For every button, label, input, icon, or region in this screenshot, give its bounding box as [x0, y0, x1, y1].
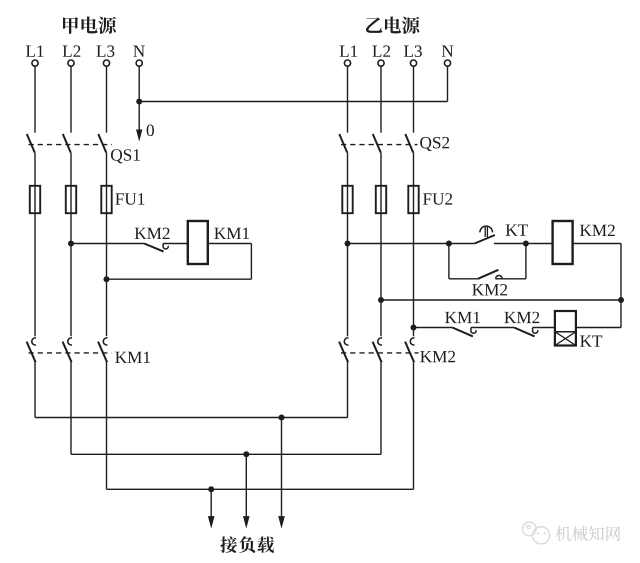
- wire: L3 source A fuse to KM1 contact: [106, 213, 108, 336]
- wire: load bus 3 horizontal: [107, 488, 414, 490]
- wire: load bus 2 right vertical (from KM2 pole 2): [380, 362, 382, 454]
- contact KM1 main pole 1 blade: [27, 342, 36, 363]
- wire: L3 source B terminal to QS: [413, 66, 415, 132]
- switch QS1 pole 3 blade: [98, 134, 106, 153]
- node: junction of KT contact and KM2 self-hold branch (left): [446, 241, 452, 247]
- wire: KM1 coil to right corner: [208, 243, 252, 245]
- arrow: load output from bus 2: [243, 454, 250, 528]
- wire: load bus 1 left vertical (from KM1 pole 1): [34, 362, 36, 417]
- wire: L1 source B fuse to KM2 contact: [347, 213, 349, 336]
- wire: load bus 2 left vertical (from KM1 pole 2): [70, 362, 72, 454]
- wire: L1 source B QS to fuse: [347, 153, 349, 186]
- label: QS1: [111, 149, 140, 163]
- contact KM2 NO fixed-contact dome: [496, 275, 503, 278]
- wire: L2 source B terminal to QS: [380, 66, 382, 132]
- node: tap on L1 source B for KM2 coil circuit: [345, 241, 351, 247]
- node: load tap on bus 3: [208, 486, 214, 492]
- contact KM2 normally-closed blade: [514, 328, 535, 337]
- terminal circle N source B: [444, 60, 450, 66]
- wire: N source B terminal down to neutral bus: [447, 66, 449, 101]
- label: terminal L2: [63, 45, 81, 56]
- coil KM2 (contactor coil): [553, 221, 573, 264]
- label: QS2: [420, 137, 449, 151]
- wire: self-hold branch to KM2 NO contact: [449, 278, 478, 280]
- wire: self-hold branch left vertical: [448, 244, 450, 279]
- wire: L3 source B tap to KM1 NC contact: [414, 327, 453, 329]
- label: KM1 (NC contact in KT circuit): [445, 312, 480, 323]
- terminal circle L2 source B: [378, 60, 384, 66]
- switch QS1 pole 1 blade: [27, 134, 35, 153]
- contact KM2 normally-closed (interlock) blade: [144, 244, 163, 252]
- wire: KM2 NC contact to KM1 coil: [163, 243, 188, 245]
- contact KM1 main pole 2 blade: [63, 342, 72, 363]
- label: terminal N: [133, 46, 145, 57]
- switch QS2 pole 2 blade: [373, 134, 381, 153]
- fuse FU2 pole 3: [408, 186, 418, 213]
- coil KT (time relay coil, box with X): [555, 311, 576, 346]
- terminal circle L1 source A: [32, 60, 38, 66]
- label: KM2 (main contacts): [420, 351, 455, 362]
- label: KM2 (NC contact in KT circuit): [504, 312, 539, 323]
- contact KM1 normally-closed blade: [452, 328, 473, 337]
- node: junction of KT contact and KM2 self-hold branch (right): [523, 241, 529, 247]
- contact KM1 NC fixed-contact hook: [471, 328, 476, 333]
- coil KM1 (contactor coil): [188, 221, 208, 264]
- wire: L2 source A fuse to KM1 contact: [70, 213, 72, 336]
- watermark logo (two circles): [523, 522, 550, 544]
- switch QS1 pole 2 blade: [63, 134, 71, 153]
- wire: load bus 3 right vertical (from KM2 pole 3): [413, 362, 415, 489]
- wire: KT contact fixed side to junction: [494, 243, 526, 245]
- fuse FU2 pole 1: [342, 186, 352, 213]
- label: KM2 (self-holding contact): [472, 284, 507, 295]
- wire: L3 source A terminal to QS: [106, 66, 108, 132]
- fuse FU2 pole 2: [376, 186, 386, 213]
- fuse FU1 pole 1: [30, 186, 40, 213]
- wire: neutral bus linking N of source A and source B: [139, 101, 447, 103]
- label: KM2 (interlock contact): [135, 228, 170, 239]
- terminal circle N source A: [136, 60, 142, 66]
- wire: L1 source B tap to KT contact branch: [348, 243, 449, 245]
- watermark text 机械知网: [556, 526, 620, 541]
- wire: load bus 2 horizontal: [71, 453, 381, 455]
- wire: L2 source B fuse to KM2 contact: [380, 213, 382, 336]
- wire: L1 source A fuse to KM1 contact: [34, 213, 36, 336]
- wire: load bus 3 left vertical (from KM1 pole 3): [106, 362, 108, 489]
- node: KM1 coil return tap on L3 source A: [104, 276, 110, 282]
- node: N junction source A: [136, 99, 142, 105]
- contact KT time-delay symbol (semicircle with stem): [480, 226, 493, 237]
- contact KM1 main pole 3 blade: [98, 342, 107, 363]
- wire: load bus 1 horizontal: [35, 417, 348, 419]
- wire: self-hold branch right vertical: [525, 244, 527, 279]
- wire: load bus 1 right vertical (from KM2 pole 1): [347, 362, 349, 417]
- node: junction control return at right edge: [618, 297, 624, 303]
- wire: L2 source A QS to fuse: [70, 153, 72, 186]
- wire: L3 source A QS to fuse: [106, 153, 108, 186]
- label: KM2 (coil): [580, 225, 615, 236]
- node: tap on L3 source B for KT coil circuit: [411, 325, 417, 331]
- label: terminal L3: [404, 45, 422, 57]
- wire: L2 source B QS to fuse: [380, 153, 382, 186]
- node: tap on L2 source B (control return): [378, 297, 384, 303]
- contact KM2 main pole 2 (fixed-contact arc): [378, 338, 382, 345]
- node: tap on L2 source A for KM1 coil circuit: [68, 241, 74, 247]
- contact KM1 main pole 1 (fixed-contact arc): [32, 338, 36, 345]
- label: title 甲电源 (power source A): [63, 16, 116, 33]
- fuse FU1 pole 2: [66, 186, 76, 213]
- terminal circle L3 source A: [103, 60, 109, 66]
- label: KT (coil): [580, 336, 602, 347]
- contact KT time-delayed blade: [475, 235, 495, 244]
- label: terminal L3: [96, 45, 114, 57]
- contact KM1 main pole 2 (fixed-contact arc): [68, 338, 72, 345]
- label: terminal L2: [372, 45, 390, 56]
- contact KM2 main pole 1 blade: [339, 342, 348, 363]
- wire: control return bus to right edge: [381, 299, 621, 301]
- label: terminal N: [442, 46, 454, 57]
- wire: KM2 NC to KT coil: [532, 327, 555, 329]
- label: terminal L1: [340, 45, 358, 56]
- wire: L3 source B fuse to KM2 contact: [413, 213, 415, 336]
- label: FU1: [115, 193, 144, 205]
- node: load tap on bus 2: [243, 451, 249, 457]
- contact KM2 NC fixed-contact hook: [163, 244, 168, 249]
- terminal circle L3 source B: [410, 60, 416, 66]
- contact KM2 NC fixed-contact hook: [533, 328, 538, 333]
- arrow: load output from bus 3: [208, 489, 215, 528]
- wire: L3 source B QS to fuse: [413, 153, 415, 186]
- contact KM1 linkage dashed line: [29, 352, 112, 354]
- wire: L2 tap to KM2 NC contact: [71, 243, 144, 245]
- contact KM2 normally-open (self-holding) blade: [478, 270, 499, 279]
- wire: KM1 coil return to L3 source A: [107, 278, 252, 280]
- wire: L1 source A terminal to QS: [34, 66, 36, 132]
- contact KM2 main pole 1 (fixed-contact arc): [344, 338, 348, 345]
- wire: junction to KM2 coil: [526, 243, 553, 245]
- contact KM2 main pole 3 blade: [405, 342, 414, 363]
- switch QS2 pole 1 blade: [339, 134, 347, 153]
- label: 0 (neutral line): [147, 125, 154, 137]
- wire: KM1 NC to KM2 NC contact: [471, 327, 514, 329]
- label: KM1 (main contacts): [115, 352, 150, 363]
- contact KM2 main pole 2 blade: [373, 342, 382, 363]
- wire: L2 source A terminal to QS: [70, 66, 72, 132]
- wire: KM1 coil return vertical: [250, 244, 252, 280]
- terminal circle L1 source B: [344, 60, 350, 66]
- arrow: neutral outgoing line 0: [136, 102, 142, 142]
- arrow: load output from bus 1: [278, 418, 285, 529]
- contact KM1 main pole 3 (fixed-contact arc): [103, 338, 107, 345]
- switch QS2 linkage dashed line: [341, 144, 418, 146]
- label: title 乙电源 (power source B): [366, 16, 420, 33]
- node: load tap on bus 1: [279, 415, 285, 421]
- wire: KM2 NO contact to right vertical: [496, 278, 526, 280]
- label: terminal L1: [26, 45, 44, 56]
- label: KT (delayed contact): [506, 224, 528, 235]
- wire: KT coil to right edge vertical: [576, 327, 621, 329]
- switch QS2 pole 3 blade: [405, 134, 413, 153]
- fuse FU1 pole 3: [101, 186, 111, 213]
- label: KM1 (coil): [214, 228, 249, 239]
- switch QS1 linkage dashed line: [29, 144, 113, 146]
- wire: right edge vertical (KM2 coil / KT coil return): [620, 244, 622, 328]
- label: FU2: [423, 193, 452, 205]
- wire: N source A terminal down to junction: [138, 66, 140, 101]
- wire: L1 source B terminal to QS: [347, 66, 349, 132]
- terminal circle L2 source A: [68, 60, 74, 66]
- label: 接负载 (to load): [220, 536, 274, 553]
- wire: L1 source A QS to fuse: [34, 153, 36, 186]
- wire: KM2 coil to right edge vertical: [573, 243, 621, 245]
- contact KM2 linkage dashed line: [341, 352, 419, 354]
- contact KM2 main pole 3 (fixed-contact arc): [410, 338, 414, 345]
- wire: junction to KT delayed contact: [449, 243, 475, 245]
